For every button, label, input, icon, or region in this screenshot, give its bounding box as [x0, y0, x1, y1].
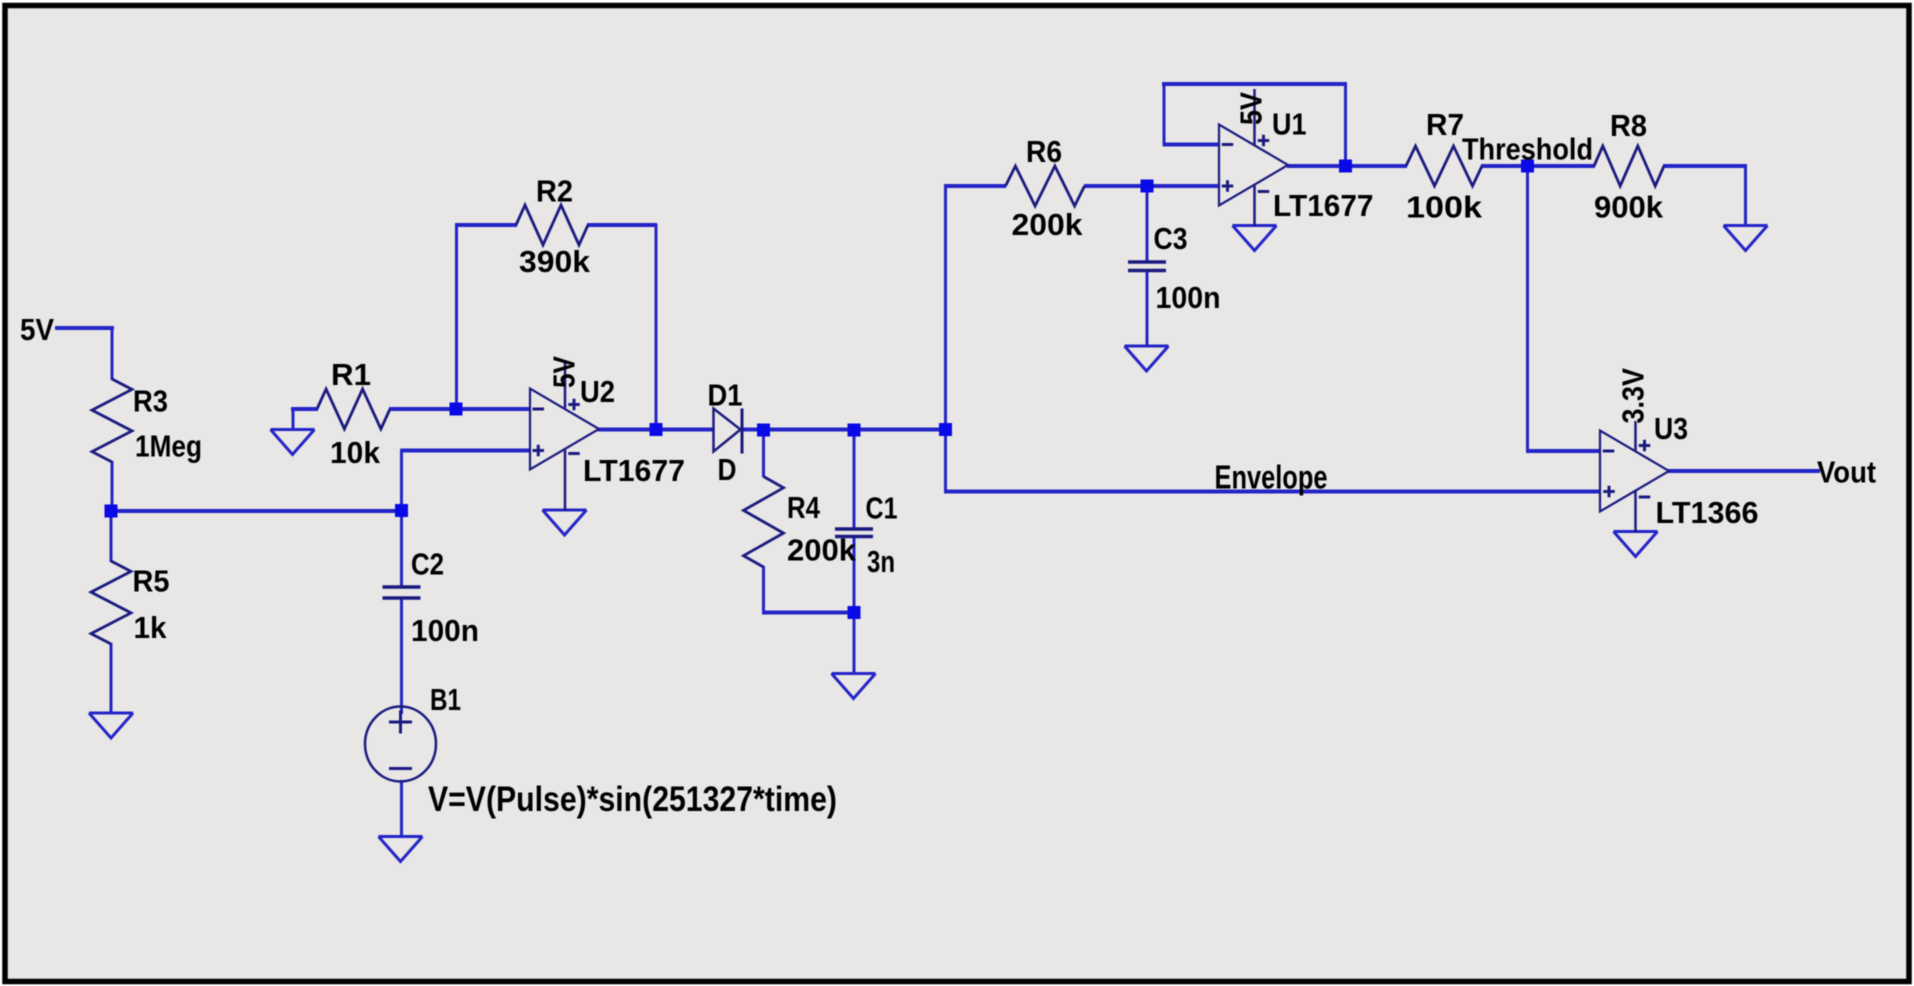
- svg-text:900k: 900k: [1594, 190, 1664, 225]
- svg-text:100n: 100n: [1156, 280, 1221, 315]
- svg-text:10k: 10k: [330, 435, 381, 470]
- svg-text:R3: R3: [133, 384, 168, 419]
- svg-text:1Meg: 1Meg: [135, 429, 202, 464]
- svg-text:C2: C2: [411, 547, 444, 582]
- svg-text:R2: R2: [536, 174, 573, 209]
- svg-text:390k: 390k: [519, 244, 591, 279]
- svg-text:100k: 100k: [1406, 190, 1483, 225]
- svg-text:1k: 1k: [134, 610, 168, 645]
- svg-text:3n: 3n: [867, 544, 895, 579]
- svg-text:Envelope: Envelope: [1215, 459, 1328, 496]
- svg-text:U1: U1: [1272, 107, 1307, 142]
- svg-text:R6: R6: [1026, 134, 1062, 169]
- svg-text:D: D: [718, 452, 737, 487]
- svg-text:U2: U2: [580, 374, 615, 409]
- svg-text:C3: C3: [1154, 221, 1188, 256]
- svg-text:LT1366: LT1366: [1656, 495, 1759, 530]
- svg-text:U3: U3: [1654, 411, 1688, 446]
- svg-text:D1: D1: [708, 378, 743, 413]
- svg-text:5V: 5V: [20, 312, 54, 347]
- svg-text:R8: R8: [1610, 108, 1647, 143]
- svg-text:Vout: Vout: [1817, 455, 1876, 490]
- svg-text:5V: 5V: [547, 356, 582, 388]
- svg-text:R5: R5: [133, 564, 170, 599]
- svg-text:R7: R7: [1426, 107, 1464, 142]
- svg-text:100n: 100n: [411, 613, 479, 648]
- svg-text:LT1677: LT1677: [1273, 188, 1374, 223]
- svg-text:R1: R1: [331, 357, 371, 392]
- svg-text:C1: C1: [866, 491, 898, 526]
- svg-text:200k: 200k: [1012, 207, 1084, 242]
- svg-text:V=V(Pulse)*sin(251327*time): V=V(Pulse)*sin(251327*time): [428, 780, 837, 819]
- svg-text:3.3V: 3.3V: [1616, 368, 1651, 424]
- svg-text:R4: R4: [787, 490, 821, 525]
- svg-text:LT1677: LT1677: [583, 453, 685, 488]
- svg-text:200k: 200k: [787, 533, 857, 568]
- svg-text:5V: 5V: [1234, 92, 1269, 125]
- svg-text:Threshold: Threshold: [1462, 132, 1593, 167]
- svg-text:B1: B1: [430, 682, 461, 717]
